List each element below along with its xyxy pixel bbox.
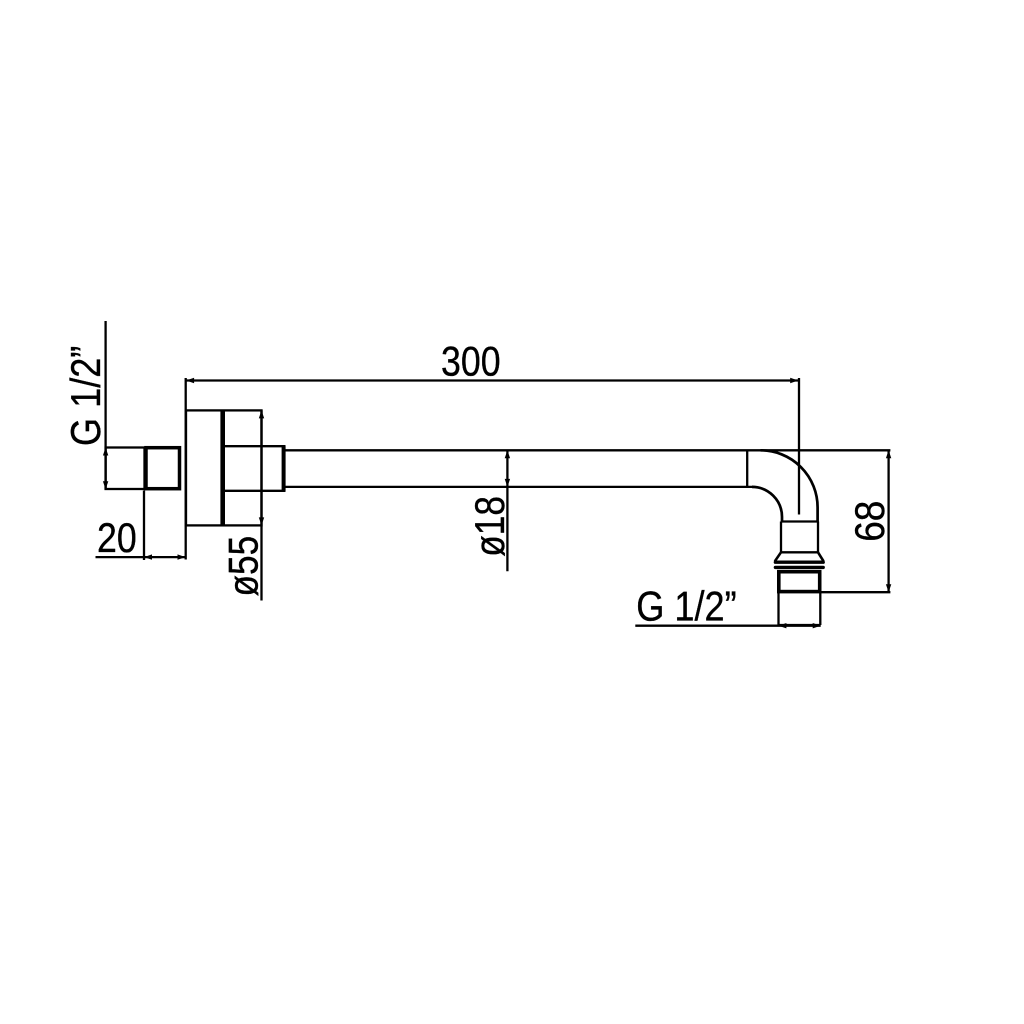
bottom pipe right — [819, 593, 821, 625]
arrow: bottom G1/2 right — [813, 623, 821, 628]
wire: 68 bottom extension line — [821, 591, 890, 593]
arrow: 68 down — [886, 584, 891, 592]
arrow: bottom G1/2 left — [778, 623, 786, 628]
svg-text:ø18: ø18 — [467, 496, 514, 557]
arrow: ø18 down — [505, 479, 510, 487]
arrow: ø55 down — [259, 517, 264, 525]
outlet pipe flare top — [781, 551, 818, 553]
flange rectangle ø55 — [186, 410, 262, 525]
outlet pipe right — [817, 522, 819, 553]
flare left slant — [775, 552, 781, 561]
bottom pipe left — [777, 593, 779, 625]
wire: bottom G1/2 dimension line — [635, 625, 820, 627]
outlet pipe left — [780, 522, 782, 553]
tube joint line — [746, 450, 748, 487]
bottom thread thick rectangle — [779, 572, 820, 592]
arrow: left G1/2 down — [103, 481, 108, 489]
tube top line + 68 extension — [286, 449, 891, 451]
arrow: 20 left — [144, 554, 152, 559]
bottom pipe end line — [779, 624, 821, 626]
svg-text:ø55: ø55 — [221, 536, 268, 597]
svg-text:68: 68 — [847, 501, 894, 542]
wire: 20 dimension line — [96, 556, 186, 558]
neck bottom line — [223, 490, 286, 492]
wall thread shank rectangle — [106, 448, 145, 490]
arrow: 300 left — [186, 378, 194, 383]
arrow: 300 right — [790, 378, 798, 383]
wire: ø18 dimension line — [506, 450, 508, 571]
washer ring bar — [775, 566, 823, 569]
wire: 300 left extension / flange left edge — [185, 378, 187, 560]
wire: 68 dimension line — [887, 450, 889, 592]
wire: 300 dimension line — [186, 379, 798, 381]
neck top line — [223, 445, 286, 447]
elbow inner curve — [752, 487, 782, 522]
elbow outer curve — [761, 450, 818, 521]
svg-text:300: 300 — [441, 339, 501, 385]
neck thick right edge — [282, 446, 286, 491]
arrow: left G1/2 up — [103, 448, 108, 456]
arrow: ø18 up — [505, 450, 510, 458]
elbow joint line — [782, 520, 818, 522]
svg-text:G 1/2”: G 1/2” — [636, 584, 736, 630]
wire: left G1/2 dimension line — [104, 321, 106, 489]
svg-text:20: 20 — [97, 515, 137, 561]
arrow: ø55 up — [259, 410, 264, 418]
flange face thick line — [220, 410, 225, 525]
arrow: 20 right — [178, 554, 186, 559]
tube bottom line — [286, 486, 753, 488]
wire: 300 right extension to outlet centre — [798, 378, 800, 515]
wall nut thick square — [146, 448, 180, 489]
wire: 20 left extension line — [143, 491, 145, 561]
arrow: 68 up — [886, 450, 891, 458]
svg-text:G 1/2”: G 1/2” — [64, 346, 110, 446]
flare right slant — [818, 552, 824, 561]
flare bottom bar — [775, 561, 823, 564]
wire: ø55 dimension line — [260, 410, 262, 600]
